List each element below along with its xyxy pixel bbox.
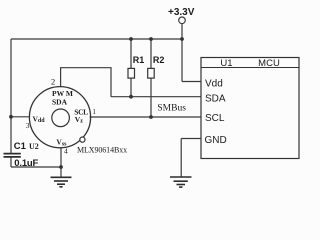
resistor R2 xyxy=(148,68,155,78)
svg-text:Vdd: Vdd xyxy=(205,78,223,89)
svg-text:SMBus: SMBus xyxy=(157,104,186,114)
junction dot R2 top xyxy=(149,37,153,41)
svg-text:0.1uF: 0.1uF xyxy=(14,158,38,169)
MCU title separator xyxy=(201,67,299,69)
sensor U2 can (MLX90614) xyxy=(29,87,90,148)
svg-text:GND: GND xyxy=(205,135,227,146)
resistor R1 xyxy=(128,68,135,78)
wire C1 to ground junction xyxy=(11,166,61,168)
svg-text:MLX90614Bxx: MLX90614Bxx xyxy=(77,146,127,155)
ground (MCU side) xyxy=(170,177,192,187)
MCU U1 box xyxy=(201,58,299,159)
wire left vertical (Vdd net to C1) xyxy=(10,39,12,153)
power terminal +3.3V xyxy=(179,17,186,24)
wire Vdd pin to MCU xyxy=(182,81,201,83)
svg-text:U1: U1 xyxy=(220,58,232,69)
svg-text:4: 4 xyxy=(64,147,68,156)
wire SCL bus to MCU xyxy=(90,116,201,118)
svg-text:2: 2 xyxy=(51,76,55,86)
wire R2 bottom lead xyxy=(150,78,152,117)
wire R1 bottom lead xyxy=(130,78,132,97)
junction dot R2/SCL xyxy=(149,115,153,119)
wire sensor pin2 to SDA bus xyxy=(61,68,111,97)
wire ground stem (sensor) xyxy=(60,167,62,177)
sensor U2 tab xyxy=(80,137,85,142)
svg-text:R2: R2 xyxy=(153,55,165,65)
wire top power rail xyxy=(11,38,182,40)
wire sensor Vss pin down xyxy=(60,148,62,167)
svg-text:MCU: MCU xyxy=(258,58,280,69)
svg-text:U2: U2 xyxy=(29,142,39,151)
capacitor C1 xyxy=(4,154,21,157)
junction dot ground (C1/Vss) xyxy=(59,165,63,169)
wire R1 top lead xyxy=(130,39,132,68)
ground (sensor/C1 side) xyxy=(51,177,72,187)
wire sensor Vdd branch xyxy=(11,116,30,118)
wire C1 bottom lead xyxy=(10,158,12,168)
junction dot left wire / sensor Vdd xyxy=(9,115,13,119)
svg-text:C1: C1 xyxy=(14,141,27,152)
wire MCU GND pin xyxy=(181,138,201,140)
junction dot R1/SDA xyxy=(129,95,133,99)
svg-text:SCL: SCL xyxy=(205,113,225,124)
wire R2 top lead xyxy=(150,39,152,68)
wire MCU GND drop xyxy=(180,139,182,177)
svg-text:+3.3V: +3.3V xyxy=(168,7,195,18)
sensor U2 window xyxy=(52,109,70,127)
svg-text:SDA: SDA xyxy=(205,94,226,105)
svg-text:R1: R1 xyxy=(133,55,145,65)
junction dot R1 top xyxy=(129,37,133,41)
junction dot rail/+3.3V xyxy=(180,37,184,41)
svg-text:1: 1 xyxy=(92,108,96,116)
wire SDA bus to MCU xyxy=(111,96,201,98)
svg-text:3: 3 xyxy=(26,121,30,130)
svg-text:Vdd: Vdd xyxy=(33,114,46,124)
wire +3.3V vertical drop xyxy=(181,24,183,82)
svg-text:SDA: SDA xyxy=(52,97,68,106)
